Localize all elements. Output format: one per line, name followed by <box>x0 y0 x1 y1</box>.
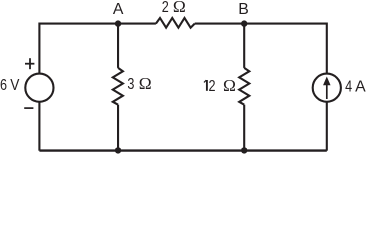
voltage source V1 circle (6V) <box>25 74 53 102</box>
resistor R1 2-ohm horizontal zigzag <box>156 18 195 28</box>
wire top-right: from 2-ohm through node B to corner, down to current source <box>195 24 327 74</box>
resistor R3 12-ohm vertical zigzag <box>239 68 249 105</box>
svg-text:V: V <box>10 77 19 94</box>
minus sign of voltage source <box>24 107 33 109</box>
node A junction dot <box>115 20 121 26</box>
svg-text:Ω: Ω <box>139 75 152 93</box>
bottom junction dot under A <box>115 147 121 153</box>
label 12 ohm : digit 1 drawn as strokes <box>204 80 207 91</box>
resistor R2 3-ohm vertical zigzag <box>113 68 123 105</box>
svg-text:Ω: Ω <box>173 0 186 16</box>
current source arrow head <box>323 77 331 86</box>
wire left-bottom: voltage source down to bottom rail <box>38 102 40 151</box>
svg-text:6: 6 <box>0 77 7 95</box>
svg-text:2: 2 <box>208 78 215 96</box>
plus sign of voltage source <box>25 58 34 69</box>
bottom junction dot under B <box>241 147 247 153</box>
current source I1 circle (4A) <box>313 74 341 102</box>
wire 12-ohm to bottom rail junction <box>243 105 245 151</box>
wire node B branch down to 12-ohm <box>243 24 245 68</box>
wire node A branch down to 3-ohm <box>117 24 119 68</box>
node B junction dot <box>241 20 247 26</box>
svg-text:4: 4 <box>345 78 352 96</box>
svg-text:2: 2 <box>162 0 169 16</box>
wire top-left: from voltage source up, then right to 2-ohm resistor <box>39 24 155 74</box>
wire right-bottom: current source down to bottom rail <box>326 102 328 151</box>
current source arrow shaft <box>326 85 328 100</box>
wire 3-ohm to bottom rail junction <box>117 105 119 151</box>
svg-text:3: 3 <box>127 76 134 94</box>
svg-text:A: A <box>113 1 124 18</box>
svg-text:Ω: Ω <box>223 76 236 94</box>
svg-text:B: B <box>238 1 249 18</box>
wire bottom rail <box>39 149 326 151</box>
svg-text:A: A <box>355 79 366 96</box>
